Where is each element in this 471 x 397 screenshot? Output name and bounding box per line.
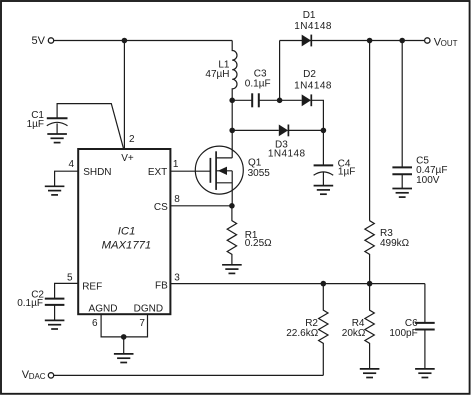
wire REF pin 5 (55, 283, 79, 298)
wire FB rail (170, 283, 425, 285)
diode D3 (268, 125, 306, 160)
svg-text:22.6kΩ: 22.6kΩ (286, 328, 318, 339)
svg-text:5: 5 (67, 273, 73, 284)
junction C5 tap (399, 38, 405, 44)
resistor R4 (342, 284, 375, 369)
svg-text:0.1µF: 0.1µF (245, 78, 271, 89)
svg-text:FB: FB (155, 280, 168, 291)
ground (C5) (392, 189, 412, 198)
wire D3 cathode (288, 129, 323, 131)
ground (R1) (222, 265, 242, 274)
junction L1 bottom (229, 98, 235, 104)
wire C1 to V+ pin (57, 104, 124, 149)
svg-text:IC1: IC1 (118, 225, 136, 237)
svg-text:100V: 100V (416, 175, 440, 186)
svg-text:DAC: DAC (29, 372, 46, 381)
ground (C2) (45, 320, 65, 329)
svg-text:D2: D2 (303, 69, 316, 80)
wire C1 to ground (56, 123, 58, 134)
ground (SHDN) (45, 186, 65, 195)
junction R3 tap (367, 38, 373, 44)
svg-text:1µF: 1µF (338, 166, 355, 177)
svg-text:100pF: 100pF (389, 328, 417, 339)
transistor Q1 (195, 130, 270, 205)
svg-text:1N4148: 1N4148 (294, 21, 332, 32)
capacitor C5 (392, 156, 447, 189)
svg-text:8: 8 (174, 194, 180, 205)
capacitor C6 (389, 284, 434, 369)
resistor R1 (227, 206, 272, 265)
wire D2 anode (280, 99, 302, 101)
svg-text:REF: REF (82, 281, 102, 292)
diode D2 (294, 69, 332, 106)
wire gate to EXT pin 1 (170, 170, 210, 172)
wire VDAC to R2 (54, 374, 324, 376)
junction R2 tap (321, 281, 327, 287)
wire CS pin 8 to source (170, 205, 232, 207)
svg-text:SHDN: SHDN (83, 167, 111, 178)
junction AGND/DGND (121, 334, 127, 340)
wire D1 rail (280, 40, 425, 42)
svg-text:1N4148: 1N4148 (268, 149, 306, 160)
svg-text:4: 4 (69, 159, 75, 170)
diode D1 (294, 10, 332, 46)
svg-text:MAX1771: MAX1771 (102, 239, 152, 251)
svg-text:3055: 3055 (248, 168, 271, 179)
resistor R3 (365, 221, 410, 284)
svg-text:1µF: 1µF (27, 119, 44, 130)
wire R3 branch (369, 41, 371, 221)
svg-text:0.1µF: 0.1µF (17, 298, 43, 309)
resistor R2 (286, 284, 328, 376)
wire 5V rail to L1 (54, 40, 232, 42)
svg-text:EXT: EXT (148, 167, 167, 178)
junction C3/D2 node (277, 98, 283, 104)
ground (C6) (415, 369, 435, 378)
svg-text:1: 1 (173, 159, 179, 170)
junction V+ tap (122, 38, 128, 44)
junction source/CS node (229, 203, 235, 209)
node 5V terminal (32, 35, 54, 47)
junction R4 tap (367, 281, 373, 287)
IC U1 MAX1771 (78, 149, 170, 314)
svg-text:0.25Ω: 0.25Ω (245, 238, 272, 249)
capacitor C4 (314, 130, 356, 185)
svg-text:Q1: Q1 (248, 158, 262, 169)
ground (AGND/DGND) (114, 354, 134, 363)
wire riser to D1 rail (279, 41, 281, 101)
svg-text:1N4148: 1N4148 (294, 80, 332, 91)
wire C5 branch (401, 41, 403, 168)
junction C4 node (321, 128, 327, 134)
wire D3 anode (232, 129, 279, 131)
wire D2 cathode to C4 node (311, 100, 323, 130)
svg-text:20kΩ: 20kΩ (342, 328, 366, 339)
node VOUT terminal (425, 36, 458, 48)
capacitor C2 (17, 289, 64, 320)
wire SHDN pin 4 (55, 171, 79, 186)
wire junction to V+ pin 2 (123, 41, 125, 149)
svg-text:V+: V+ (121, 153, 134, 164)
svg-text:2: 2 (129, 134, 135, 145)
svg-text:47µH: 47µH (205, 69, 229, 80)
svg-text:OUT: OUT (441, 39, 458, 48)
svg-text:DGND: DGND (134, 303, 163, 314)
svg-text:D1: D1 (303, 10, 316, 21)
svg-text:7: 7 (139, 318, 145, 329)
inductor L1 (205, 41, 237, 101)
ground (C4) (314, 186, 334, 195)
ground (R4) (360, 369, 380, 378)
capacitor C1 (27, 110, 68, 130)
capacitor C3 (232, 69, 279, 108)
junction drain node (229, 128, 235, 134)
svg-text:499kΩ: 499kΩ (380, 238, 410, 249)
svg-text:AGND: AGND (89, 303, 118, 314)
ground (C1) (47, 134, 67, 143)
svg-text:5V: 5V (32, 35, 46, 47)
wire L1 junction to D3 junction (231, 100, 233, 130)
wire AGND pin 6 (101, 314, 124, 337)
wire DGND pin 7 (124, 314, 148, 337)
wire to ground (AGND/DGND) (123, 337, 125, 354)
svg-text:3: 3 (174, 273, 180, 284)
svg-text:CS: CS (154, 202, 168, 213)
svg-text:6: 6 (92, 318, 98, 329)
node VDAC terminal (22, 369, 54, 381)
